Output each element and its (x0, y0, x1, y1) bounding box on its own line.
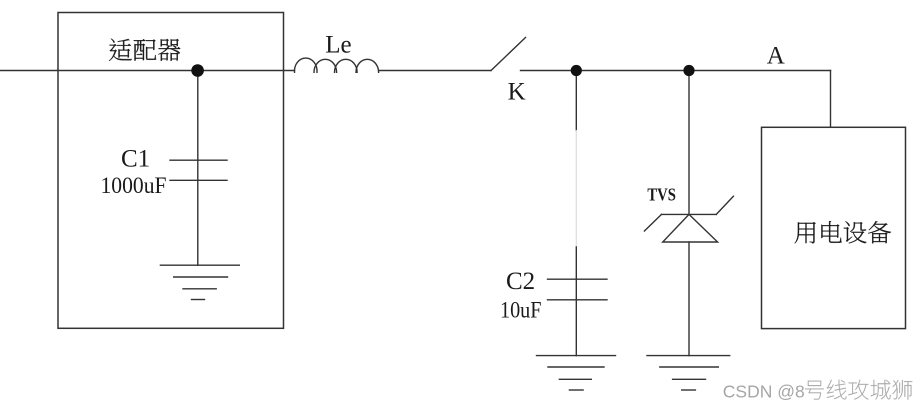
ground for C2 (537, 356, 616, 390)
adapter box (58, 13, 284, 329)
ground for TVS (647, 356, 730, 390)
svg-text:A: A (767, 43, 785, 70)
label 适配器 (109, 39, 180, 61)
svg-text:C2: C2 (506, 268, 535, 295)
ground for C1 (160, 265, 239, 299)
svg-text:TVS: TVS (647, 185, 676, 205)
capacitor C2 plates (548, 278, 608, 280)
svg-text:K: K (508, 78, 526, 105)
junction node inside adapter (C1 tap) (191, 64, 204, 77)
switch K (open blade) (491, 38, 526, 71)
capacitor C1 lead wire (197, 71, 199, 266)
svg-text:1000uF: 1000uF (101, 173, 167, 198)
wire: TVS anode to ground (688, 242, 690, 356)
capacitor C1 plates (170, 159, 227, 161)
wire: node to TVS cathode (688, 71, 690, 215)
wire: drop from node A corner into load box (830, 71, 832, 128)
capacitor C2 lead lower (575, 247, 577, 356)
label 用电设备 (795, 221, 891, 243)
watermark 号线攻城狮 (805, 380, 912, 400)
wire: inductor to switch (379, 70, 491, 72)
TVS diode (zener symbol with bent bar) (644, 196, 733, 242)
junction node at C2 branch (571, 65, 582, 76)
capacitor C2 lead upper (575, 71, 577, 131)
capacitor C2 lead faint middle (575, 131, 577, 248)
svg-text:CSDN @8: CSDN @8 (723, 382, 805, 402)
inductor Le (4-loop coil) (294, 58, 378, 72)
junction node at TVS branch (683, 65, 694, 76)
load box (762, 127, 906, 328)
svg-text:Le: Le (325, 32, 351, 59)
svg-text:C1: C1 (121, 146, 150, 173)
wire: input to adapter and through box (0, 70, 295, 72)
svg-text:10uF: 10uF (500, 298, 542, 323)
wire: switch to node A corner (521, 70, 831, 72)
